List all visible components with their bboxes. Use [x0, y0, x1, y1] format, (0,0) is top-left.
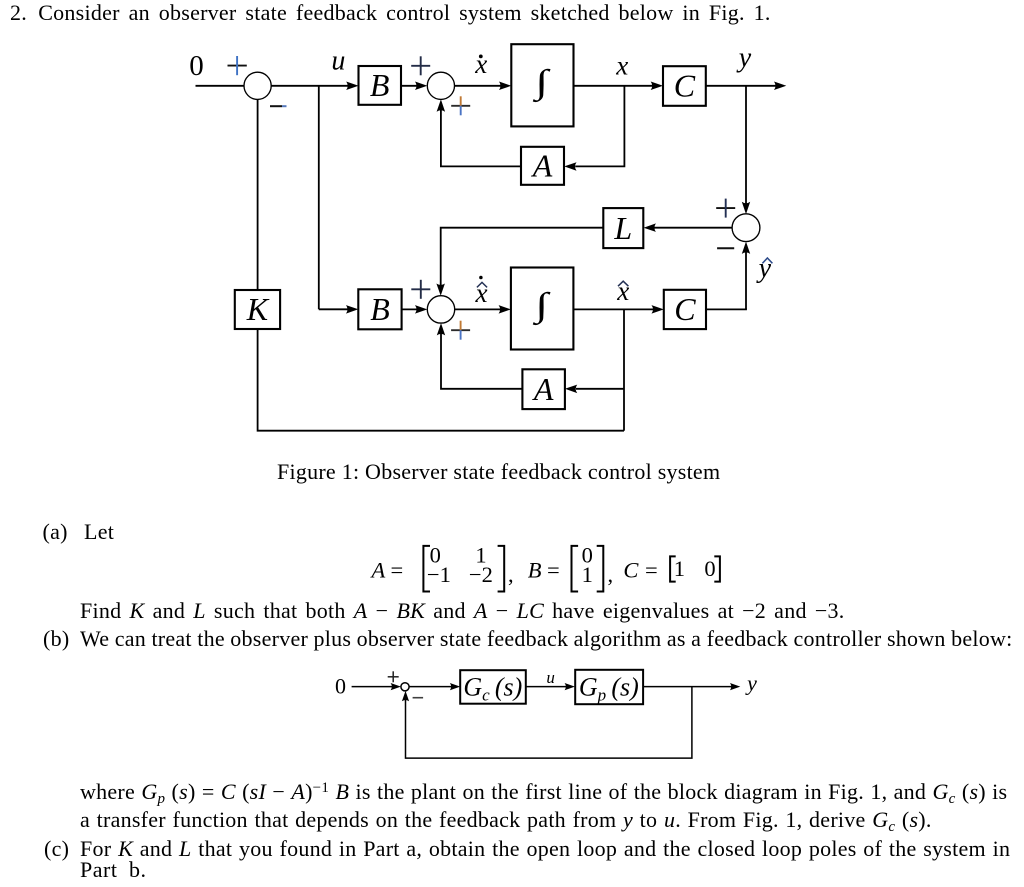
- node y output label: [745, 671, 757, 696]
- svg-text:0: 0: [704, 556, 715, 581]
- arrowhead into A1 right: [564, 162, 576, 171]
- svg-text:A: A: [532, 371, 554, 407]
- item (b) label: [43, 628, 69, 650]
- B matrix left bracket: [572, 546, 579, 592]
- equation B =: [528, 558, 560, 583]
- wire B2 to sum S4: [402, 308, 419, 310]
- figure caption: [277, 461, 720, 483]
- plus sign at S2 left input: [411, 56, 430, 75]
- item (b) text: [80, 628, 1012, 650]
- wire C1 to output y: [706, 85, 778, 87]
- plus sign at S4 left input: [411, 280, 430, 299]
- svg-text:Gc (s): Gc (s): [463, 672, 522, 704]
- svg-text:0: 0: [189, 50, 204, 82]
- arrowhead into S2 left: [415, 82, 427, 91]
- small summing node: [401, 683, 409, 691]
- node u label: [546, 668, 555, 687]
- C matrix entries: [674, 556, 716, 581]
- plus sign at S1 left input: [228, 56, 247, 75]
- arrowhead into C1: [651, 82, 663, 91]
- svg-text:x: x: [615, 50, 628, 80]
- wire K down and along bottom to xhat branch: [258, 329, 624, 431]
- block C1: [663, 66, 706, 106]
- wire u branch to block B2: [319, 308, 350, 310]
- item (a) text: [84, 521, 114, 543]
- wire Gc to Gp: [526, 686, 567, 688]
- item (c) text line 2: [80, 859, 146, 881]
- wire y branch down to sum S3: [745, 86, 747, 206]
- svg-text:=: =: [391, 558, 404, 583]
- arrowhead into S3 bottom: [742, 242, 750, 254]
- A matrix left bracket: [423, 546, 430, 592]
- svg-text:1: 1: [582, 562, 593, 587]
- svg-text:B: B: [528, 558, 542, 583]
- item (c) label: [44, 838, 69, 860]
- wire S2 to integrator I1: [455, 85, 503, 87]
- problem statement line: [10, 2, 771, 24]
- wire I1 to block C1: [574, 85, 655, 87]
- svg-text:A: A: [370, 558, 386, 583]
- svg-text:K: K: [246, 291, 270, 327]
- svg-text:=: =: [645, 558, 658, 583]
- C matrix left bracket: [670, 556, 676, 581]
- node u label: [331, 46, 345, 77]
- node 0 input label: [189, 50, 204, 82]
- node x label: [615, 50, 628, 80]
- arrowhead into Gc: [450, 683, 460, 690]
- minus sign at S1 bottom input: [270, 105, 287, 107]
- plus sign at S4 bottom input: [451, 321, 470, 340]
- wire S3 to block L: [653, 227, 732, 229]
- A matrix right bracket: [498, 546, 505, 592]
- arrowhead into S2 bottom: [437, 99, 446, 111]
- svg-text:B: B: [370, 67, 390, 103]
- svg-text:0: 0: [335, 674, 346, 699]
- B matrix right bracket: [597, 546, 604, 592]
- svg-text:B: B: [370, 291, 390, 327]
- wire B1 to sum S2: [401, 85, 419, 87]
- wire yhat from C2 up to S3 bottom: [745, 251, 747, 310]
- where line 2: [80, 809, 932, 831]
- arrowhead into B1: [346, 82, 358, 91]
- svg-text:,: ,: [608, 562, 614, 587]
- item (c) text: [80, 838, 1010, 860]
- arrowhead into S4 left: [415, 305, 427, 314]
- svg-text:C: C: [674, 291, 696, 327]
- integrator block I1: [511, 44, 573, 126]
- svg-text:u: u: [331, 46, 345, 77]
- block C2: [664, 290, 706, 329]
- svg-text:1: 1: [674, 556, 685, 581]
- svg-text:y: y: [736, 43, 752, 74]
- plus sign at S3 top input: [716, 199, 735, 218]
- arrowhead into Gp: [565, 683, 575, 690]
- where Gp(s) line 1: [80, 781, 1007, 803]
- svg-text:−1: −1: [427, 562, 451, 587]
- part b diagram: input 0 label: [335, 674, 346, 699]
- node y label: [736, 43, 752, 74]
- wire Gp to output y: [643, 686, 732, 688]
- svg-text:Gp (s): Gp (s): [579, 672, 639, 704]
- minus sign at S3 bottom input: [717, 247, 734, 249]
- equation C =: [623, 558, 657, 583]
- block K: [235, 290, 280, 329]
- comma after A matrix: [508, 562, 514, 587]
- C matrix right bracket: [714, 556, 720, 581]
- node y-hat label: [756, 253, 773, 284]
- node xhat-dot label: [475, 276, 488, 308]
- wire S4 to integrator I2: [455, 308, 502, 310]
- arrowhead into S4 bottom: [437, 323, 445, 335]
- wire node to Gc: [409, 686, 452, 688]
- arrowhead into I1: [499, 82, 511, 91]
- output arrowhead: [730, 683, 740, 690]
- block A2: [522, 369, 565, 409]
- minus sign at node: [413, 697, 424, 699]
- block A1: [521, 147, 564, 185]
- item (a) label: [43, 521, 68, 543]
- wire feedback branch x to A1: [575, 86, 624, 167]
- wire S1 to block B1: [271, 85, 349, 87]
- plus sign at node: [388, 671, 399, 682]
- integrator block I2: [511, 268, 574, 350]
- summing junction S2: [427, 72, 454, 99]
- node x-dot label: [474, 49, 487, 79]
- svg-text:−2: −2: [469, 562, 493, 587]
- svg-text:C: C: [623, 558, 639, 583]
- svg-text:y: y: [756, 253, 772, 284]
- wire xhat branch to A2: [576, 388, 624, 390]
- wire C2 to yhat node: [706, 308, 747, 310]
- plus sign at S2 bottom input: [451, 96, 470, 115]
- A matrix entries: [427, 542, 493, 587]
- wire A2 to S4 bottom: [441, 332, 522, 389]
- feedback wire y branch to node bottom: [406, 687, 692, 759]
- arrowhead into S3 top: [742, 202, 750, 214]
- comma after B matrix: [608, 562, 614, 587]
- block B1: [359, 66, 402, 105]
- svg-text:C: C: [674, 67, 696, 103]
- svg-text:y: y: [745, 671, 757, 696]
- wire S1 down to block K: [257, 99, 259, 290]
- svg-text:L: L: [613, 210, 632, 246]
- find K and L line: [80, 600, 845, 622]
- output arrowhead: [774, 82, 786, 91]
- block B2: [358, 289, 401, 329]
- summing junction S4: [427, 296, 454, 323]
- arrowhead into B2: [346, 305, 358, 314]
- node xhat label: [616, 276, 629, 306]
- wire branch xhat down to bottom feedback: [623, 309, 625, 430]
- block Gp(s): [575, 670, 643, 705]
- arrowhead into A2 right: [565, 385, 577, 394]
- node u branch junction: [318, 86, 320, 309]
- arrowhead into C2: [652, 305, 664, 314]
- arrowhead into I2: [499, 305, 511, 314]
- wire input 0 to sum S1: [196, 85, 245, 87]
- arrowhead into L right: [644, 223, 656, 232]
- summing junction S3: [732, 214, 760, 242]
- block Gc(s): [460, 670, 526, 704]
- wire 0 to node: [352, 686, 393, 688]
- svg-text:,: ,: [508, 562, 514, 587]
- svg-text:A: A: [531, 147, 553, 183]
- arrowhead into S4 top: [436, 284, 445, 296]
- arrowhead into node bottom: [402, 691, 409, 701]
- wire A1 to S2 bottom: [441, 109, 521, 167]
- equation A matrix: A =: [370, 558, 404, 583]
- svg-text:=: =: [547, 558, 560, 583]
- wire L to sum S4 top: [441, 228, 604, 287]
- summing junction S1: [244, 72, 271, 99]
- block L: [603, 208, 643, 248]
- svg-text:u: u: [546, 668, 555, 687]
- B matrix entries: [582, 542, 593, 587]
- wire I2 to block C2: [573, 308, 655, 310]
- svg-text:x: x: [474, 49, 487, 79]
- arrowhead into node: [391, 683, 401, 690]
